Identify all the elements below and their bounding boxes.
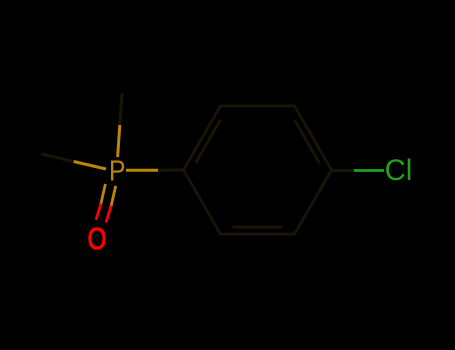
bond P-C(ring), C half (dark) bbox=[158, 169, 184, 172]
aromatic inner double-bond line (upper-right edge) bbox=[294, 120, 319, 164]
bond P-CH3 (left methyl), C half (dark) bbox=[41, 154, 73, 162]
aromatic inner double-bond line (upper-left edge) bbox=[196, 120, 221, 164]
bond C(ring)-Cl, C half (dark) bbox=[332, 169, 355, 172]
aromatic inner double-bond line (bottom edge) bbox=[232, 226, 282, 229]
bond C(ring)-Cl, Cl half (green) bbox=[354, 169, 384, 172]
bond P-CH3 (top methyl), P half (gold) bbox=[118, 125, 120, 157]
svg-text:P: P bbox=[109, 155, 125, 187]
bond P-CH3 (left methyl), P half (gold) bbox=[74, 162, 106, 170]
svg-text:Cl: Cl bbox=[385, 154, 413, 187]
benzene ring C6H4 (dark carbon-colored hexagon) bbox=[184, 106, 332, 234]
double bond P=O line 2, O half (red) bbox=[106, 206, 111, 223]
svg-text:O: O bbox=[88, 221, 107, 256]
double bond P=O line 1, O half (red) bbox=[96, 204, 101, 220]
bond P-CH3 (top methyl), C half (dark) bbox=[120, 93, 122, 125]
double bond P=O line 2, P half (gold) bbox=[111, 186, 116, 206]
double bond P=O line 1, P half (gold) bbox=[101, 184, 106, 204]
bond P-C(ring), P half (gold) bbox=[126, 169, 158, 172]
